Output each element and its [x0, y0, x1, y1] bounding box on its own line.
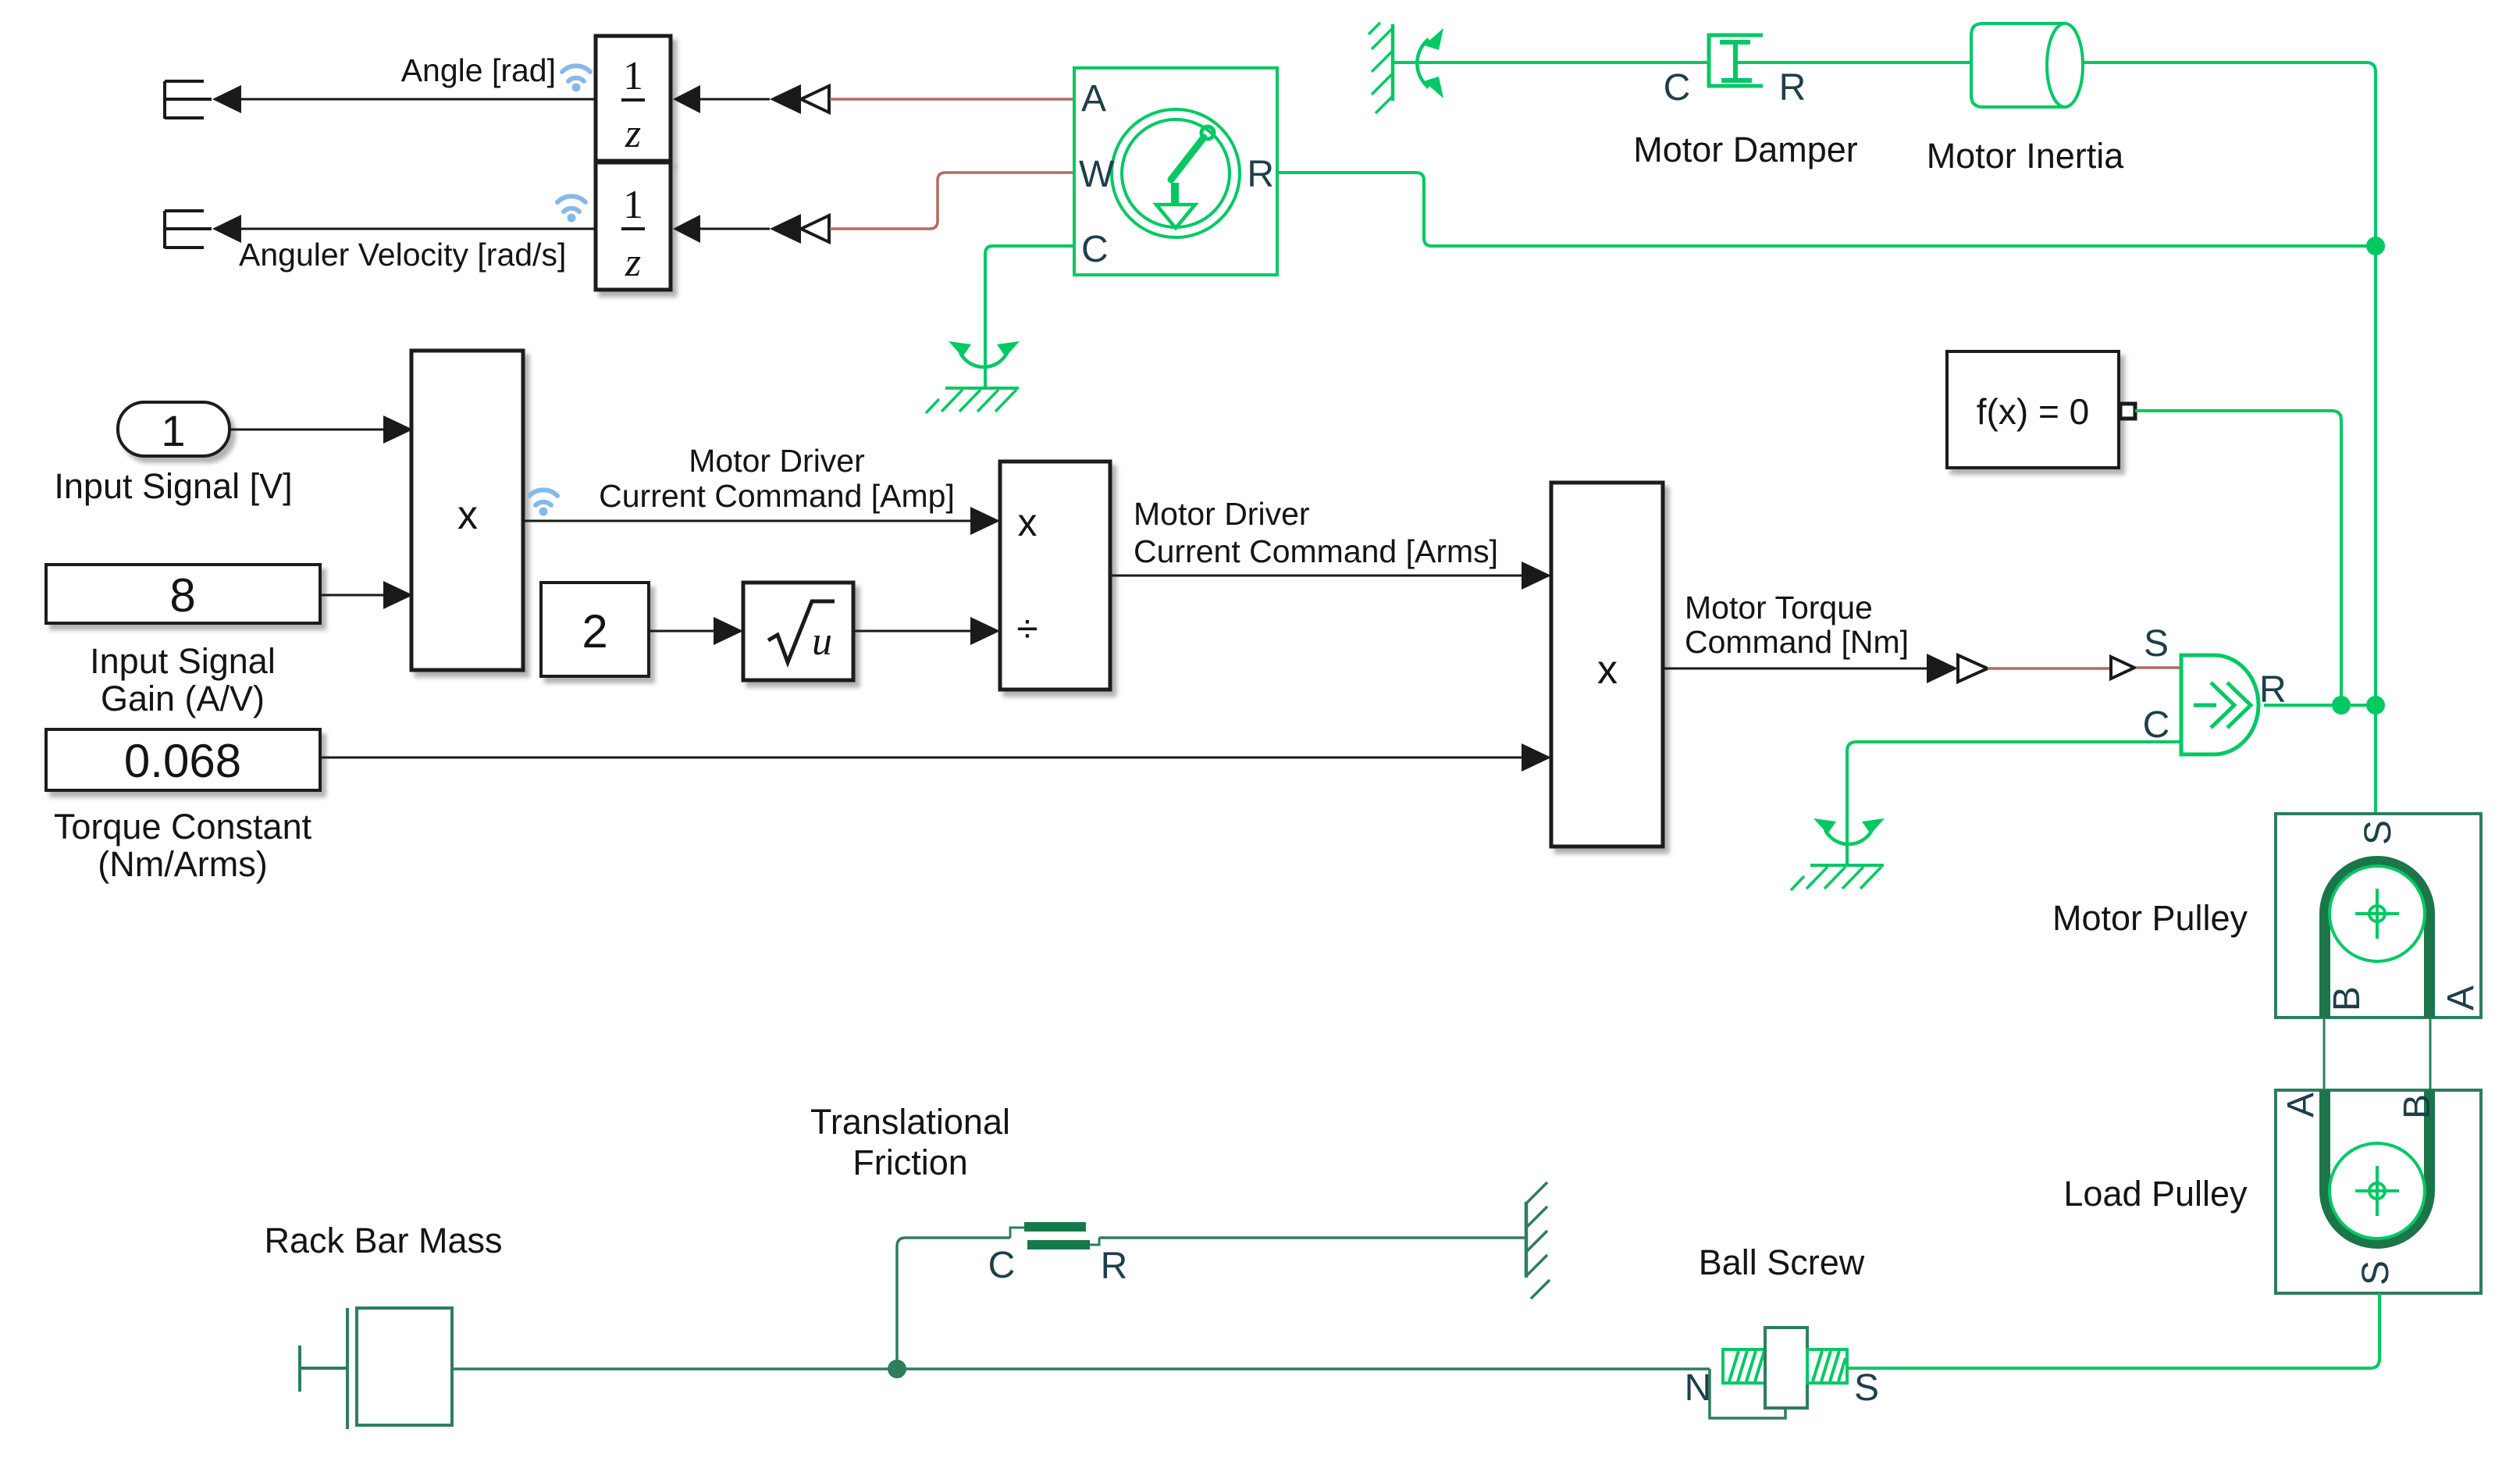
wire sensor C to ground — [985, 246, 1074, 388]
motor pulley belt — [2325, 861, 2429, 1018]
svg-text:u: u — [812, 619, 832, 664]
svg-text:2: 2 — [582, 605, 607, 658]
logging wifi badge 1 — [562, 66, 590, 91]
svg-text:R: R — [1247, 154, 1274, 195]
SECTION: sensor — [926, 68, 2376, 413]
svg-text:Current Command [Arms]: Current Command [Arms] — [1134, 533, 1498, 569]
converter arrows to PS — [1927, 654, 1958, 683]
PS wire to sensor A — [830, 98, 1074, 101]
svg-text:0.068: 0.068 — [124, 735, 241, 787]
junction node — [2366, 237, 2385, 255]
svg-text:Input Signal [V]: Input Signal [V] — [54, 466, 292, 506]
svg-text:S: S — [2358, 820, 2399, 845]
SECTION: middle signal chain — [46, 351, 2181, 884]
rotational reference ground (sensor) — [926, 341, 1020, 413]
SECTION: top-right rotational — [1369, 23, 2385, 705]
svg-text:1: 1 — [623, 183, 643, 227]
wire Angular Velocity with arrowhead — [212, 215, 241, 243]
ideal torque source block — [2181, 655, 2258, 754]
rate transition double arrow 1 — [770, 84, 801, 114]
svg-text:C: C — [2143, 704, 2170, 746]
svg-text:Input Signal: Input Signal — [90, 641, 276, 681]
SECTION: bottom translational — [264, 1102, 1879, 1429]
svg-text:N: N — [1685, 1367, 1712, 1409]
wire branch to friction — [897, 1238, 1010, 1369]
wire 8 to product — [320, 594, 383, 597]
solver port square — [2120, 404, 2135, 419]
junction node (through) — [2366, 696, 2385, 715]
inport 1 (Input Signal) — [118, 402, 230, 456]
svg-text:A: A — [1081, 78, 1106, 119]
svg-text:Translational: Translational — [810, 1102, 1010, 1142]
rotational damper (Motor Damper) — [1709, 35, 1763, 86]
SECTION: top-left delays — [165, 36, 1074, 290]
svg-text:8: 8 — [169, 569, 195, 622]
svg-text:S: S — [2355, 1260, 2397, 1285]
PS wire from sensor W — [830, 173, 1074, 229]
ideal rotational motion sensor block — [1074, 68, 1277, 275]
sqrt block — [743, 583, 853, 680]
sensor gauge icon — [1112, 109, 1240, 237]
wire — [698, 228, 770, 230]
unit delay block 2 (1/z) — [596, 162, 671, 290]
svg-text:z: z — [625, 241, 641, 285]
svg-text:Anguler Velocity [rad/s]: Anguler Velocity [rad/s] — [239, 237, 566, 273]
junction node (solver) — [2332, 696, 2351, 715]
wire inertia to right vertical — [2083, 62, 2376, 246]
divide block — [1000, 462, 1110, 690]
input arrowhead of delay 2 — [673, 215, 700, 243]
svg-text:S: S — [1854, 1367, 1879, 1409]
wire friction R to wall — [1099, 1236, 1526, 1239]
svg-text:A: A — [2440, 986, 2482, 1011]
wire vertical down to torque source R level — [2374, 246, 2377, 705]
svg-text:x: x — [1597, 647, 1618, 693]
ball screw block — [1710, 1328, 1847, 1418]
SECTION: right physical network — [1791, 351, 2385, 890]
wire wall to damper C — [1393, 61, 1709, 64]
load pulley wheel — [2330, 1143, 2425, 1239]
PS wire into S port — [2136, 666, 2181, 669]
svg-text:C: C — [988, 1245, 1016, 1286]
svg-text:Rack Bar Mass: Rack Bar Mass — [264, 1221, 502, 1260]
input arrowhead of delay 1 — [673, 85, 700, 113]
mass block (Rack Bar Mass) — [300, 1308, 452, 1429]
translational friction icon — [1010, 1222, 1099, 1249]
svg-text:Load Pulley: Load Pulley — [2063, 1174, 2248, 1214]
svg-text:Motor Driver: Motor Driver — [1134, 496, 1310, 532]
converter triangle at torque source S — [2111, 657, 2134, 679]
rotational inertia (Motor Inertia) cylinder — [1971, 23, 2065, 107]
screw hatched left — [1723, 1349, 1765, 1383]
svg-text:1: 1 — [161, 406, 185, 455]
constant 0.068 (Torque Constant) — [46, 729, 320, 790]
PS wire to S converter — [1988, 667, 2109, 670]
svg-text:(Nm/Arms): (Nm/Arms) — [98, 844, 267, 884]
svg-text:S: S — [2144, 623, 2169, 665]
wire divide to product 2 — [1110, 575, 1522, 577]
svg-text:B: B — [2326, 986, 2368, 1011]
svg-text:f(x) = 0: f(x) = 0 — [1977, 391, 2089, 432]
svg-text:B: B — [2397, 1094, 2438, 1119]
svg-text:Motor Inertia: Motor Inertia — [1927, 136, 2125, 176]
wire sqrt to divide — [853, 630, 970, 633]
motor pulley block — [2276, 814, 2481, 1018]
constant 2 — [541, 583, 649, 676]
svg-text:R: R — [1779, 67, 1806, 109]
junction node (translational) — [888, 1360, 906, 1378]
svg-text:Gain (A/V): Gain (A/V) — [101, 679, 265, 718]
product block 1 — [411, 351, 523, 670]
SECTION: pulleys — [1847, 814, 2482, 1368]
svg-text:Motor Damper: Motor Damper — [1633, 130, 1858, 169]
logging wifi badge 3 — [529, 490, 557, 515]
wire product2 output — [1663, 668, 1927, 670]
wire Angle with arrowhead — [212, 85, 241, 113]
wire vertical to motor pulley S — [2374, 705, 2377, 815]
belt wires between pulleys — [2324, 1018, 2430, 1090]
svg-text:Command [Nm]: Command [Nm] — [1685, 624, 1909, 660]
unit delay block 1 (1/z) — [596, 36, 671, 161]
svg-text:Torque Constant: Torque Constant — [54, 807, 312, 847]
svg-text:z: z — [625, 112, 641, 156]
wire product1 to divide — [523, 520, 970, 522]
wire torque source C to ground — [1847, 742, 2181, 865]
translational reference wall — [1526, 1182, 1550, 1299]
svg-text:Motor Pulley: Motor Pulley — [2052, 898, 2248, 938]
logging wifi badge 2 — [557, 196, 586, 222]
wire — [698, 98, 770, 101]
load pulley block — [2276, 1090, 2481, 1293]
svg-text:1: 1 — [623, 54, 643, 98]
rotational reference ground (torque source) — [1791, 818, 1885, 890]
svg-text:x: x — [1018, 501, 1038, 544]
rotational reference wall (top) — [1369, 23, 1443, 113]
svg-text:÷: ÷ — [1016, 607, 1038, 651]
out bus element terminator Angular Velocity — [165, 211, 212, 248]
screw hatched right — [1807, 1349, 1847, 1383]
svg-text:W: W — [1079, 154, 1115, 195]
solver configuration block f(x)=0 — [1947, 351, 2119, 468]
svg-text:Angle [rad]: Angle [rad] — [401, 52, 556, 88]
out bus element terminator Angle — [165, 81, 212, 119]
wire 2 to sqrt — [649, 630, 714, 633]
rate transition double arrow 2 — [770, 214, 801, 244]
svg-text:R: R — [1101, 1246, 1128, 1287]
wire inport to product — [230, 429, 383, 431]
svg-text:Ball Screw: Ball Screw — [1699, 1242, 1865, 1282]
motor pulley wheel — [2330, 866, 2425, 961]
wire damper R to inertia — [1738, 61, 1971, 64]
wire load pulley S to ball screw — [1847, 1293, 2379, 1368]
casing bracket — [1710, 1369, 1785, 1418]
constant 8 (Input Signal Gain) — [46, 565, 320, 623]
svg-text:Motor Driver: Motor Driver — [689, 443, 865, 479]
svg-text:Current Command [Amp]: Current Command [Amp] — [599, 478, 955, 514]
wire sensor R to right network — [1277, 173, 2376, 246]
product block 2 — [1551, 483, 1663, 847]
wire solver to network — [2135, 411, 2341, 705]
svg-text:C: C — [1664, 67, 1691, 109]
ball screw nut — [1765, 1328, 1807, 1408]
svg-text:A: A — [2280, 1093, 2322, 1117]
svg-text:C: C — [1081, 229, 1109, 270]
wire torque source R to network — [2264, 704, 2376, 707]
svg-text:x: x — [457, 493, 478, 538]
svg-text:Friction: Friction — [852, 1142, 968, 1182]
svg-text:Motor Torque: Motor Torque — [1685, 590, 1873, 626]
wire 0.068 to product 2 — [320, 757, 1522, 759]
load pulley belt — [2325, 1090, 2429, 1243]
wire mass to ball screw N — [452, 1367, 1710, 1371]
